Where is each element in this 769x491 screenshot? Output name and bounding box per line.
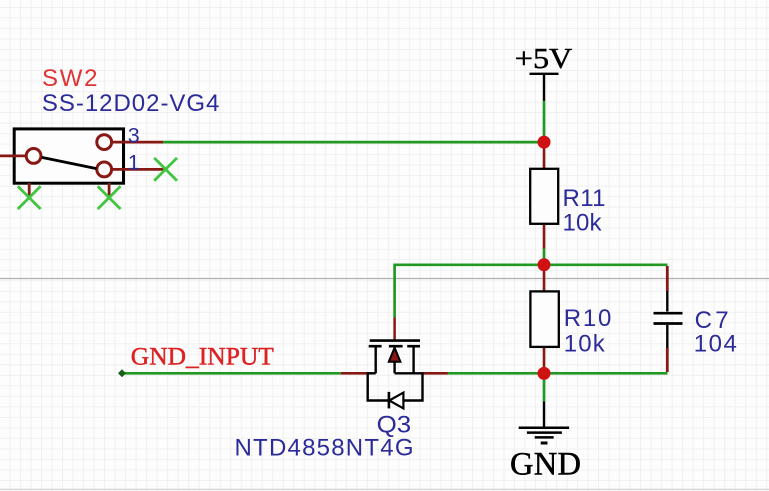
Q3 body diode loop (368, 372, 423, 400)
GND bar 3 (535, 436, 554, 439)
C7 bottom lead (666, 325, 668, 348)
switch pin1 wire (112, 168, 166, 171)
Q3 channel bar right (407, 345, 420, 348)
switch pin3 wire (112, 141, 164, 144)
Q3 left pin (341, 372, 368, 375)
R11 top lead (543, 144, 546, 169)
wire end marker (net label anchor) (118, 369, 126, 377)
capacitor C7 (654, 266, 683, 372)
no-connect X stub A (18, 186, 41, 209)
transistor Q3 (MOSFET) (341, 318, 448, 409)
svg-text:R10: R10 (564, 305, 612, 332)
section divider line (0, 278, 769, 280)
wire: +5V symbol down to junction (543, 101, 546, 143)
R10 body (530, 291, 558, 347)
svg-text:GND_INPUT: GND_INPUT (131, 342, 274, 371)
junction node below R10 (538, 367, 551, 380)
svg-text:SW2: SW2 (42, 65, 98, 92)
GND bar 1 (519, 426, 569, 429)
C7 top pin (666, 266, 669, 291)
no-connect X on pin1 (154, 158, 177, 181)
svg-text:R11: R11 (563, 185, 606, 212)
Q3 body arrow (389, 348, 401, 362)
Q3 right pin (423, 372, 448, 375)
wire: GND_INPUT to Q3 left pin (122, 372, 341, 375)
Q3 gate pin (393, 318, 396, 340)
switch left pin wire (0, 154, 27, 157)
resistor R11 (530, 144, 558, 266)
switch body box (14, 129, 123, 183)
switch bottom stub B (108, 183, 111, 196)
svg-text:1: 1 (128, 151, 140, 175)
Q3 diode cathode bar (388, 392, 391, 409)
GND bar 4 (541, 442, 548, 445)
GND stem (543, 401, 545, 427)
Q3 drain vertical (412, 346, 414, 373)
switch lever (42, 157, 97, 168)
switch contact circle pin1 (97, 162, 112, 177)
Q3 gate bar (370, 339, 420, 342)
svg-text:SS-12D02-VG4: SS-12D02-VG4 (42, 90, 220, 117)
C7 top lead (666, 291, 668, 312)
svg-text:NTD4858NT4G: NTD4858NT4G (235, 435, 414, 462)
wire: horizontal R11/R10 junction row (395, 263, 668, 266)
resistor R10 (530, 267, 558, 373)
C7 top plate (654, 312, 683, 315)
wire: switch pin3 to +5V junction (162, 141, 545, 144)
R10 top lead (543, 267, 546, 293)
Q3 diode triangle (389, 393, 403, 409)
Q3 channel bar middle (389, 345, 403, 348)
switch common contact circle (26, 149, 41, 164)
Q3 source vertical (375, 346, 377, 373)
power symbol +5V (515, 42, 573, 100)
Q3 body-drain horizontal (395, 372, 423, 374)
no-connect X stub B (98, 186, 121, 209)
switch SW2 (0, 129, 165, 196)
wire: R11 to junction (543, 249, 546, 266)
C7 bottom plate (654, 322, 683, 325)
GND bar 2 (527, 431, 562, 434)
wire: Q3 gate vertical (393, 264, 396, 318)
switch bottom stub A (28, 183, 31, 196)
R10 bottom lead (543, 346, 546, 373)
wire: Q3 right pin to C7 bottom corner (448, 372, 668, 375)
junction node at +5V (538, 136, 551, 149)
Q3 channel bar left (369, 345, 382, 348)
switch contact circle pin3 (97, 135, 112, 150)
wire: junction to GND symbol (543, 373, 546, 401)
svg-text:GND: GND (510, 447, 581, 483)
R11 body (530, 169, 558, 224)
Q3 source jog (367, 372, 376, 374)
svg-text:+5V: +5V (515, 42, 573, 74)
C7 bottom pin (666, 348, 669, 372)
bottom window border (0, 488, 769, 490)
Q3 body vertical (393, 361, 395, 373)
junction node between R11 and R10 (538, 258, 551, 271)
svg-text:104: 104 (694, 330, 737, 357)
svg-text:10k: 10k (564, 330, 606, 357)
svg-text:10k: 10k (563, 209, 603, 236)
R11 bottom lead (543, 223, 546, 249)
svg-text:3: 3 (128, 124, 140, 148)
ground symbol GND (519, 401, 569, 443)
